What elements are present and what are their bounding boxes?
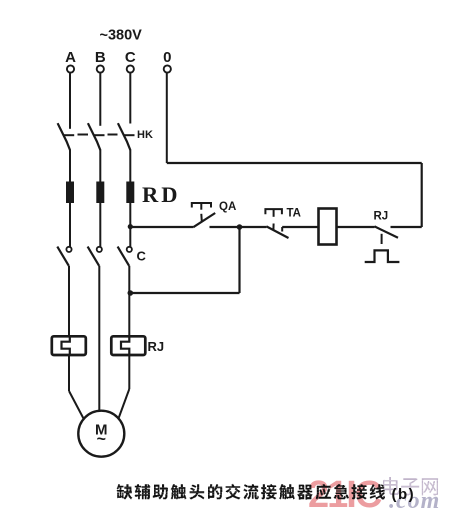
pushbutton TA actuator stem	[273, 209, 275, 217]
wire fuse B to contactor	[99, 203, 101, 247]
thermal heater RJ element A inner jog	[62, 336, 70, 355]
svg-text:(b): (b)	[392, 486, 416, 503]
wire switch to fuse B	[99, 150, 101, 183]
svg-text:RD: RD	[142, 182, 181, 207]
node self-hold on phase C	[128, 290, 134, 296]
watermark dian-zi-wang pink glyphs	[383, 477, 438, 496]
pushbutton QA actuator bracket	[192, 203, 211, 208]
terminal 0 circle	[164, 65, 171, 72]
svg-text:~: ~	[97, 431, 106, 448]
svg-text:HK: HK	[137, 129, 153, 141]
fuse RD phase B	[96, 182, 104, 204]
node junction after QA	[237, 224, 243, 230]
caption chinese title	[117, 484, 385, 500]
contactor C main contact A circle	[66, 247, 71, 252]
switch HK pole B blade	[88, 123, 100, 150]
thermal heater RJ element C inner jog	[121, 336, 129, 355]
wire self-hold vertical drop	[238, 227, 240, 293]
wire heater A down	[68, 355, 70, 391]
wire contactor A to heater	[68, 266, 70, 337]
wire QA to node	[210, 226, 240, 228]
pushbutton TA blade	[266, 226, 288, 238]
contactor C main contact C blade	[118, 247, 130, 266]
wire phase C terminal to switch	[129, 73, 131, 124]
contactor C main contact C circle	[127, 247, 132, 252]
switch HK pole B contact tick	[94, 134, 105, 136]
wire neutral 0 down	[166, 73, 168, 163]
pushbutton QA blade	[193, 213, 215, 227]
terminal B circle	[97, 65, 104, 72]
thermal contact RJ blade	[375, 226, 399, 237]
wire fuse A to contactor	[69, 203, 71, 247]
contactor coil C rectangle	[319, 209, 337, 245]
pushbutton QA actuator stem lower	[200, 214, 203, 222]
switch HK pole A contact tick	[63, 134, 74, 136]
wire coil to RJ contact	[337, 226, 375, 228]
wire contactor B down to motor	[98, 266, 100, 411]
terminal A circle	[67, 65, 74, 72]
wire control tap to QA	[130, 226, 193, 228]
svg-text:TA: TA	[287, 208, 301, 220]
wire fuse C to node with dot	[129, 203, 131, 247]
svg-text:C: C	[137, 249, 147, 264]
wire top horizontal from neutral	[167, 162, 422, 164]
wire heater A diagonal to motor	[69, 391, 84, 419]
node control tap on phase C	[128, 224, 133, 229]
pushbutton QA actuator stem	[200, 203, 202, 210]
wire contactor C to heater	[128, 266, 130, 337]
svg-text:RJ: RJ	[374, 211, 389, 223]
wire phase B terminal to switch	[99, 73, 101, 126]
wire node to TA	[240, 226, 267, 228]
svg-text:0: 0	[163, 49, 171, 66]
wire TA to coil	[282, 226, 318, 228]
switch HK linkage dash 1	[78, 134, 89, 136]
wire switch to fuse C	[129, 150, 131, 183]
wire right riser	[421, 163, 423, 227]
switch HK linkage dash 2	[108, 134, 118, 136]
wire switch to fuse A	[69, 150, 71, 183]
fuse RD phase A	[66, 182, 74, 204]
pushbutton TA fixed contact tick	[281, 227, 283, 232]
switch HK pole C blade	[118, 123, 130, 150]
svg-text:B: B	[95, 49, 106, 66]
thermal contact RJ stem	[381, 234, 383, 244]
switch HK pole A blade	[58, 123, 70, 150]
fuse RD phase C	[126, 182, 134, 204]
wire self-hold horizontal to phase C	[130, 292, 239, 294]
svg-text:C: C	[125, 49, 136, 66]
svg-text:~380V: ~380V	[100, 28, 143, 44]
contactor C main contact B blade	[88, 247, 100, 266]
wire heater C down	[128, 355, 130, 389]
svg-text:RJ: RJ	[148, 339, 165, 354]
wire phase A terminal to switch	[69, 73, 71, 129]
wire RJ to right riser	[391, 226, 422, 228]
contactor C main contact A blade	[57, 247, 69, 266]
thermal actuator hat symbol	[365, 250, 400, 262]
svg-text:QA: QA	[219, 201, 236, 213]
terminal C circle	[127, 65, 134, 72]
motor M circle	[78, 411, 124, 457]
pushbutton TA actuator bracket	[265, 209, 282, 214]
thermal heater RJ element A box	[52, 336, 86, 355]
svg-text:A: A	[65, 49, 76, 66]
contactor C main contact B circle	[97, 247, 102, 252]
pushbutton TA actuator stem lower	[272, 224, 274, 231]
thermal heater RJ element C box	[111, 336, 145, 355]
wire heater C diagonal to motor	[119, 389, 130, 418]
switch HK pole C contact tick	[124, 134, 135, 136]
